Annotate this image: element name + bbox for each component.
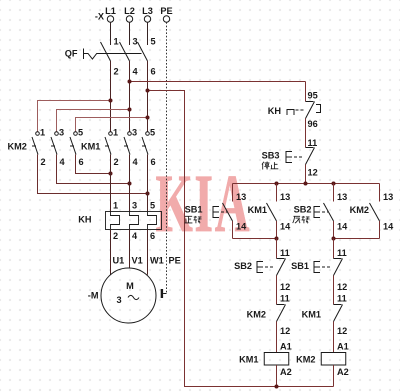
label SB3 stop (Chinese) xyxy=(262,162,278,170)
wire KM1 coil to bottom xyxy=(276,365,278,387)
svg-text:5: 5 xyxy=(150,128,155,138)
svg-text:4: 4 xyxy=(132,231,138,241)
KM2 pole 3-4 xyxy=(51,128,66,168)
circuit breaker QF xyxy=(65,37,156,77)
wire L2 to KM2 pole3 xyxy=(57,110,130,132)
svg-text:14: 14 xyxy=(236,222,247,232)
svg-text:96: 96 xyxy=(308,119,318,129)
wire KH to motor U1 xyxy=(110,230,112,275)
svg-text:-X: -X xyxy=(95,12,105,22)
KM1 pole 5-6 xyxy=(142,128,156,168)
svg-text:QF: QF xyxy=(65,49,78,59)
wire KH to motor V1 xyxy=(129,230,131,269)
wire branch1 merge branch2 xyxy=(233,238,277,240)
svg-text:U1: U1 xyxy=(113,256,125,266)
node phase swap L3 xyxy=(146,192,150,196)
KM2 pole 5-6 xyxy=(70,128,84,168)
svg-text:1: 1 xyxy=(113,201,118,211)
svg-text:KH: KH xyxy=(268,106,282,116)
svg-text:14: 14 xyxy=(280,222,291,232)
wire L1 terminal to QF xyxy=(110,22,112,45)
node phase swap L1 xyxy=(109,172,113,176)
svg-text:5: 5 xyxy=(78,128,83,138)
node L2 feed xyxy=(128,108,132,112)
contactor KM2 aux NO 13-14 hold xyxy=(350,184,395,239)
wire branch4 merge branch3 xyxy=(334,238,380,240)
wire KM2 pole1 to L3 node xyxy=(38,155,148,194)
pushbutton SB2 NC 11-12 interlock xyxy=(234,248,290,292)
svg-text:3: 3 xyxy=(59,128,64,138)
wire SB1 to KM1 NC xyxy=(333,276,335,305)
svg-text:KM1: KM1 xyxy=(248,205,267,215)
svg-text:13: 13 xyxy=(383,192,393,202)
wire QF L1 down xyxy=(110,61,112,101)
svg-text:11: 11 xyxy=(337,248,347,258)
KH auxiliary NC contact 95-96 xyxy=(268,91,321,130)
wire QF L3 down xyxy=(147,61,149,91)
wire KM2 pole3 to L2 node xyxy=(57,155,130,184)
motor M1 xyxy=(88,268,156,323)
wire merge to SB2 NC xyxy=(276,239,278,259)
terminal L1 xyxy=(105,6,116,22)
svg-text:12: 12 xyxy=(337,326,347,336)
svg-text:14: 14 xyxy=(383,222,394,232)
wire merge to SB1 NC xyxy=(333,239,335,259)
svg-text:A2: A2 xyxy=(280,367,292,377)
svg-text:A1: A1 xyxy=(337,342,349,352)
wire KM1 pole5 to KH xyxy=(147,155,149,212)
svg-text:2: 2 xyxy=(114,157,119,167)
svg-text:12: 12 xyxy=(308,168,318,178)
svg-text:6: 6 xyxy=(151,67,156,77)
svg-text:13: 13 xyxy=(236,192,246,202)
node merge right xyxy=(332,237,336,241)
node L2 tap xyxy=(128,80,132,84)
svg-text:1: 1 xyxy=(114,37,119,47)
terminal PE xyxy=(160,6,172,22)
thermal overload relay KH xyxy=(78,201,161,242)
svg-text:13: 13 xyxy=(337,192,347,202)
svg-text:95: 95 xyxy=(308,91,318,101)
svg-text:2: 2 xyxy=(114,67,119,77)
svg-text:13: 13 xyxy=(280,192,290,202)
label SB2 reverse (Chinese) xyxy=(293,216,310,223)
svg-text:11: 11 xyxy=(280,248,290,258)
svg-text:12: 12 xyxy=(337,282,347,292)
node phase swap L2 xyxy=(128,182,132,186)
coil KM1 A1-A2 xyxy=(239,342,292,378)
wire L3 to KM2 pole5 xyxy=(76,118,148,132)
node L1 feed xyxy=(109,99,113,103)
svg-text:KM1: KM1 xyxy=(239,355,258,365)
svg-text:1: 1 xyxy=(113,128,118,138)
node L3 feed xyxy=(146,116,150,120)
wire KM1 NC to KM2 coil xyxy=(333,322,335,353)
svg-text:KM2: KM2 xyxy=(247,310,266,320)
node L3 tap xyxy=(146,89,150,93)
wire KM1 pole3 to KH xyxy=(129,155,131,212)
motor M1 terminal labels xyxy=(113,256,181,266)
contactor KM2 main contacts xyxy=(8,142,27,152)
node bus SB3 xyxy=(304,182,308,186)
wire L3 terminal to QF xyxy=(147,22,149,45)
svg-text:SB1: SB1 xyxy=(185,205,203,215)
svg-text:6: 6 xyxy=(79,157,84,167)
wire control return xyxy=(148,91,334,387)
svg-text:4: 4 xyxy=(60,157,66,167)
svg-text:12: 12 xyxy=(280,326,290,336)
pushbutton SB1 NC 11-12 interlock xyxy=(291,248,347,292)
svg-text:5: 5 xyxy=(150,201,155,211)
wire KM1 pole1 to KH xyxy=(110,155,112,212)
svg-text:W1: W1 xyxy=(150,256,164,266)
svg-text:KM1: KM1 xyxy=(81,142,100,152)
svg-text:3: 3 xyxy=(132,201,137,211)
wire control bus xyxy=(233,183,380,185)
svg-text:2: 2 xyxy=(113,231,118,241)
svg-text:4: 4 xyxy=(133,157,139,167)
start pushbutton SB1 NO 13-14 (forward) xyxy=(185,184,247,239)
watermark KIA xyxy=(156,158,251,250)
contactor KM1 main contacts xyxy=(81,142,100,152)
svg-text:M: M xyxy=(126,281,134,291)
svg-text:5: 5 xyxy=(151,37,156,47)
svg-text:KM1: KM1 xyxy=(302,310,321,320)
svg-text:-M: -M xyxy=(88,291,99,301)
contactor KM2 aux NC 11-12 interlock xyxy=(247,294,291,337)
motor PE ground bar xyxy=(161,289,167,298)
node merge left xyxy=(275,237,279,241)
node bottom xyxy=(275,385,279,389)
wire KH to motor W1 xyxy=(147,230,149,275)
start pushbutton SB2 NO 13-14 (reverse) xyxy=(294,184,348,239)
svg-text:6: 6 xyxy=(151,157,156,167)
wire SB3 to bus xyxy=(305,165,307,184)
contactor KM1 aux NO 13-14 hold xyxy=(248,184,292,239)
wire KM2 coil to bottom xyxy=(333,365,335,387)
svg-text:SB2: SB2 xyxy=(294,205,312,215)
svg-text:3: 3 xyxy=(133,37,138,47)
KM1 pole 3-4 xyxy=(124,128,139,168)
svg-text:SB3: SB3 xyxy=(262,151,280,161)
KM2 pole 1-2 xyxy=(32,128,46,168)
wire QF L2 down xyxy=(129,61,131,82)
KM1 pole 1-2 xyxy=(105,128,119,168)
svg-text:L1: L1 xyxy=(105,6,116,16)
svg-text:A1: A1 xyxy=(280,342,292,352)
terminal L2 xyxy=(124,6,135,22)
wire control phase tap to KH xyxy=(130,81,306,83)
svg-text:3: 3 xyxy=(132,128,137,138)
svg-text:KM2: KM2 xyxy=(8,142,27,152)
wire PE dashed xyxy=(166,22,168,293)
node bus branch2 xyxy=(275,182,279,186)
svg-text:6: 6 xyxy=(150,231,155,241)
svg-text:2: 2 xyxy=(41,157,46,167)
wire SB2 to KM2 NC xyxy=(276,276,278,305)
svg-text:KM2: KM2 xyxy=(350,205,369,215)
svg-text:PE: PE xyxy=(169,256,181,266)
svg-text:11: 11 xyxy=(280,294,290,304)
svg-text:1: 1 xyxy=(40,128,45,138)
wire KM2 pole5 to L1 node xyxy=(76,155,111,174)
svg-text:PE: PE xyxy=(160,6,172,16)
svg-text:3: 3 xyxy=(116,295,121,305)
wire KH to SB3 xyxy=(305,119,307,148)
svg-text:KH: KH xyxy=(78,215,92,225)
wire L2 terminal to QF xyxy=(129,22,131,45)
svg-text:A2: A2 xyxy=(337,367,349,377)
svg-text:SB1: SB1 xyxy=(291,261,309,271)
svg-text:KM2: KM2 xyxy=(296,355,315,365)
coil KM2 A1-A2 xyxy=(296,342,349,378)
svg-text:12: 12 xyxy=(280,282,290,292)
svg-text:11: 11 xyxy=(308,138,318,148)
svg-text:L3: L3 xyxy=(142,6,153,16)
svg-text:SB2: SB2 xyxy=(234,261,252,271)
label SB1 forward (Chinese) xyxy=(185,216,202,223)
node bus branch3 xyxy=(332,182,336,186)
svg-text:4: 4 xyxy=(133,67,139,77)
wire L1 to KM2 pole1 xyxy=(38,101,111,132)
stop pushbutton SB3 NC 11-12 xyxy=(262,138,318,178)
svg-text:11: 11 xyxy=(337,294,347,304)
svg-text:V1: V1 xyxy=(132,256,143,266)
contactor KM1 aux NC 11-12 interlock xyxy=(302,294,348,337)
wire KM2 NC to KM1 coil xyxy=(276,322,278,353)
svg-text:L2: L2 xyxy=(124,6,135,16)
svg-text:14: 14 xyxy=(337,222,348,232)
svg-text:KIA: KIA xyxy=(156,158,251,250)
terminal L3 xyxy=(142,6,153,22)
